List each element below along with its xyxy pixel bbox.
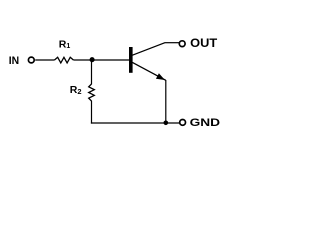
terminal GND	[180, 120, 186, 126]
svg-text:OUT: OUT	[190, 36, 218, 50]
wire R1 to base	[73, 59, 129, 61]
transistor Q1 collector	[132, 43, 165, 56]
transistor Q1 base bar	[129, 47, 133, 73]
wire R2 to ground rail	[91, 101, 93, 124]
wire IN to R1	[35, 59, 54, 61]
wire collector to OUT	[165, 42, 180, 44]
resistor R2	[89, 84, 95, 101]
junction node A	[90, 57, 95, 62]
svg-text:R1: R1	[59, 39, 71, 51]
transistor Q1 emitter	[132, 62, 165, 80]
terminal OUT	[179, 41, 185, 47]
terminal IN	[28, 57, 34, 63]
svg-text:R2: R2	[70, 84, 82, 96]
junction node B	[164, 121, 169, 126]
transistor Q1 emitter arrow	[156, 73, 165, 80]
svg-text:GND: GND	[190, 117, 221, 129]
wire emitter to node B	[165, 80, 167, 123]
wire node A to R2	[91, 60, 93, 84]
resistor R1	[55, 57, 74, 63]
wire ground rail	[91, 122, 179, 124]
svg-text:IN: IN	[9, 55, 19, 67]
